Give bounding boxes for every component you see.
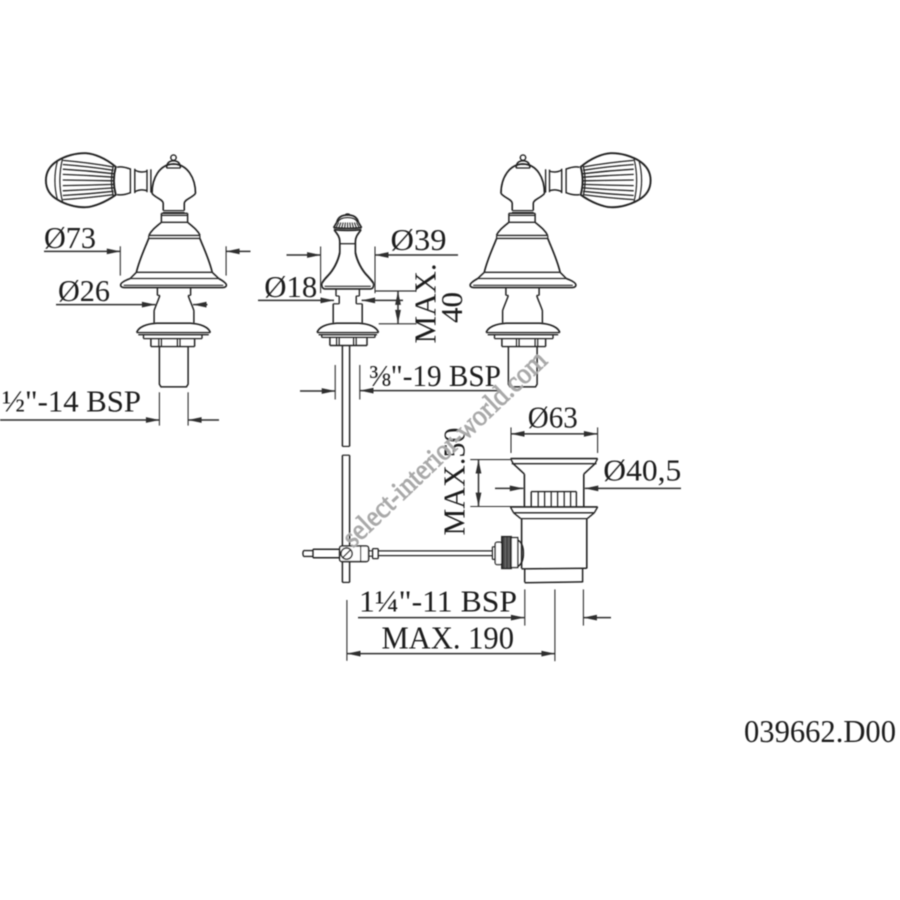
svg-text:⅜"-19 BSP: ⅜"-19 BSP [369,358,501,393]
svg-text:039662.D00: 039662.D00 [744,714,896,749]
svg-text:Ø40,5: Ø40,5 [603,452,681,487]
svg-text:Ø39: Ø39 [391,222,447,257]
svg-text:Ø26: Ø26 [58,273,110,308]
svg-text:Ø63: Ø63 [528,399,578,434]
svg-text:1¼"-11 BSP: 1¼"-11 BSP [359,584,517,619]
svg-text:Ø18: Ø18 [264,269,317,304]
svg-text:MAX. 190: MAX. 190 [382,620,515,656]
svg-text:½"-14 BSP: ½"-14 BSP [2,384,141,419]
svg-text:Ø73: Ø73 [44,220,96,255]
svg-text:40: 40 [434,292,469,323]
